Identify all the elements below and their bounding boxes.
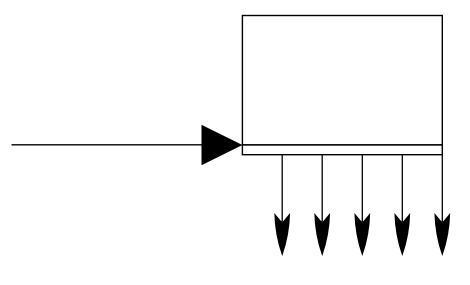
node: arrowhead 5 <box>434 213 450 256</box>
node: arrowhead 2 <box>314 213 330 256</box>
node A: large filled input arrowhead (triangle) <box>202 125 243 165</box>
node: arrowhead 4 <box>394 213 410 256</box>
wire: input line <box>12 144 202 146</box>
node: arrowhead 1 <box>274 213 290 256</box>
wire: arrow line 4 <box>401 155 403 222</box>
box: main rectangle <box>242 16 442 145</box>
box: thin strip under rectangle <box>242 145 442 155</box>
wire: arrow line 2 <box>321 155 323 222</box>
node: arrowhead 3 <box>354 213 370 256</box>
wire: arrow line 5 (continuation of rectangle right edge) <box>441 155 443 222</box>
wire: arrow line 1 <box>281 155 283 222</box>
wire: arrow line 3 <box>361 155 363 222</box>
